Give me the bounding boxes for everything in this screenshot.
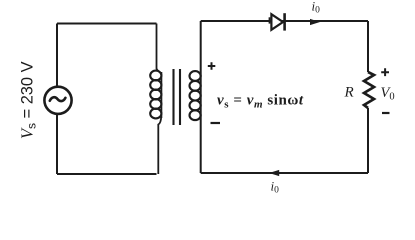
current arrow i0 bottom xyxy=(269,170,279,176)
label + output xyxy=(381,68,389,76)
wire secondary right xyxy=(367,21,369,173)
wire primary top xyxy=(57,23,157,25)
wire primary bottom xyxy=(57,173,157,175)
wire primary left xyxy=(56,24,58,175)
wire primary right xyxy=(157,24,162,175)
label - secondary xyxy=(211,122,221,124)
svg-text:R: R xyxy=(344,85,354,101)
resistor R xyxy=(364,72,374,108)
wire secondary bottom xyxy=(201,172,368,174)
current arrow i0 top xyxy=(310,19,320,25)
transformer secondary winding L2 xyxy=(190,71,201,120)
node anode tick xyxy=(269,17,271,23)
diode D1 xyxy=(271,13,284,30)
transformer core xyxy=(174,69,181,125)
label + secondary xyxy=(208,62,216,70)
transformer primary winding L1 xyxy=(150,71,161,119)
AC source Vs xyxy=(44,87,71,114)
wire secondary left xyxy=(200,21,202,173)
wire secondary top xyxy=(201,20,368,22)
label - output xyxy=(382,112,390,114)
